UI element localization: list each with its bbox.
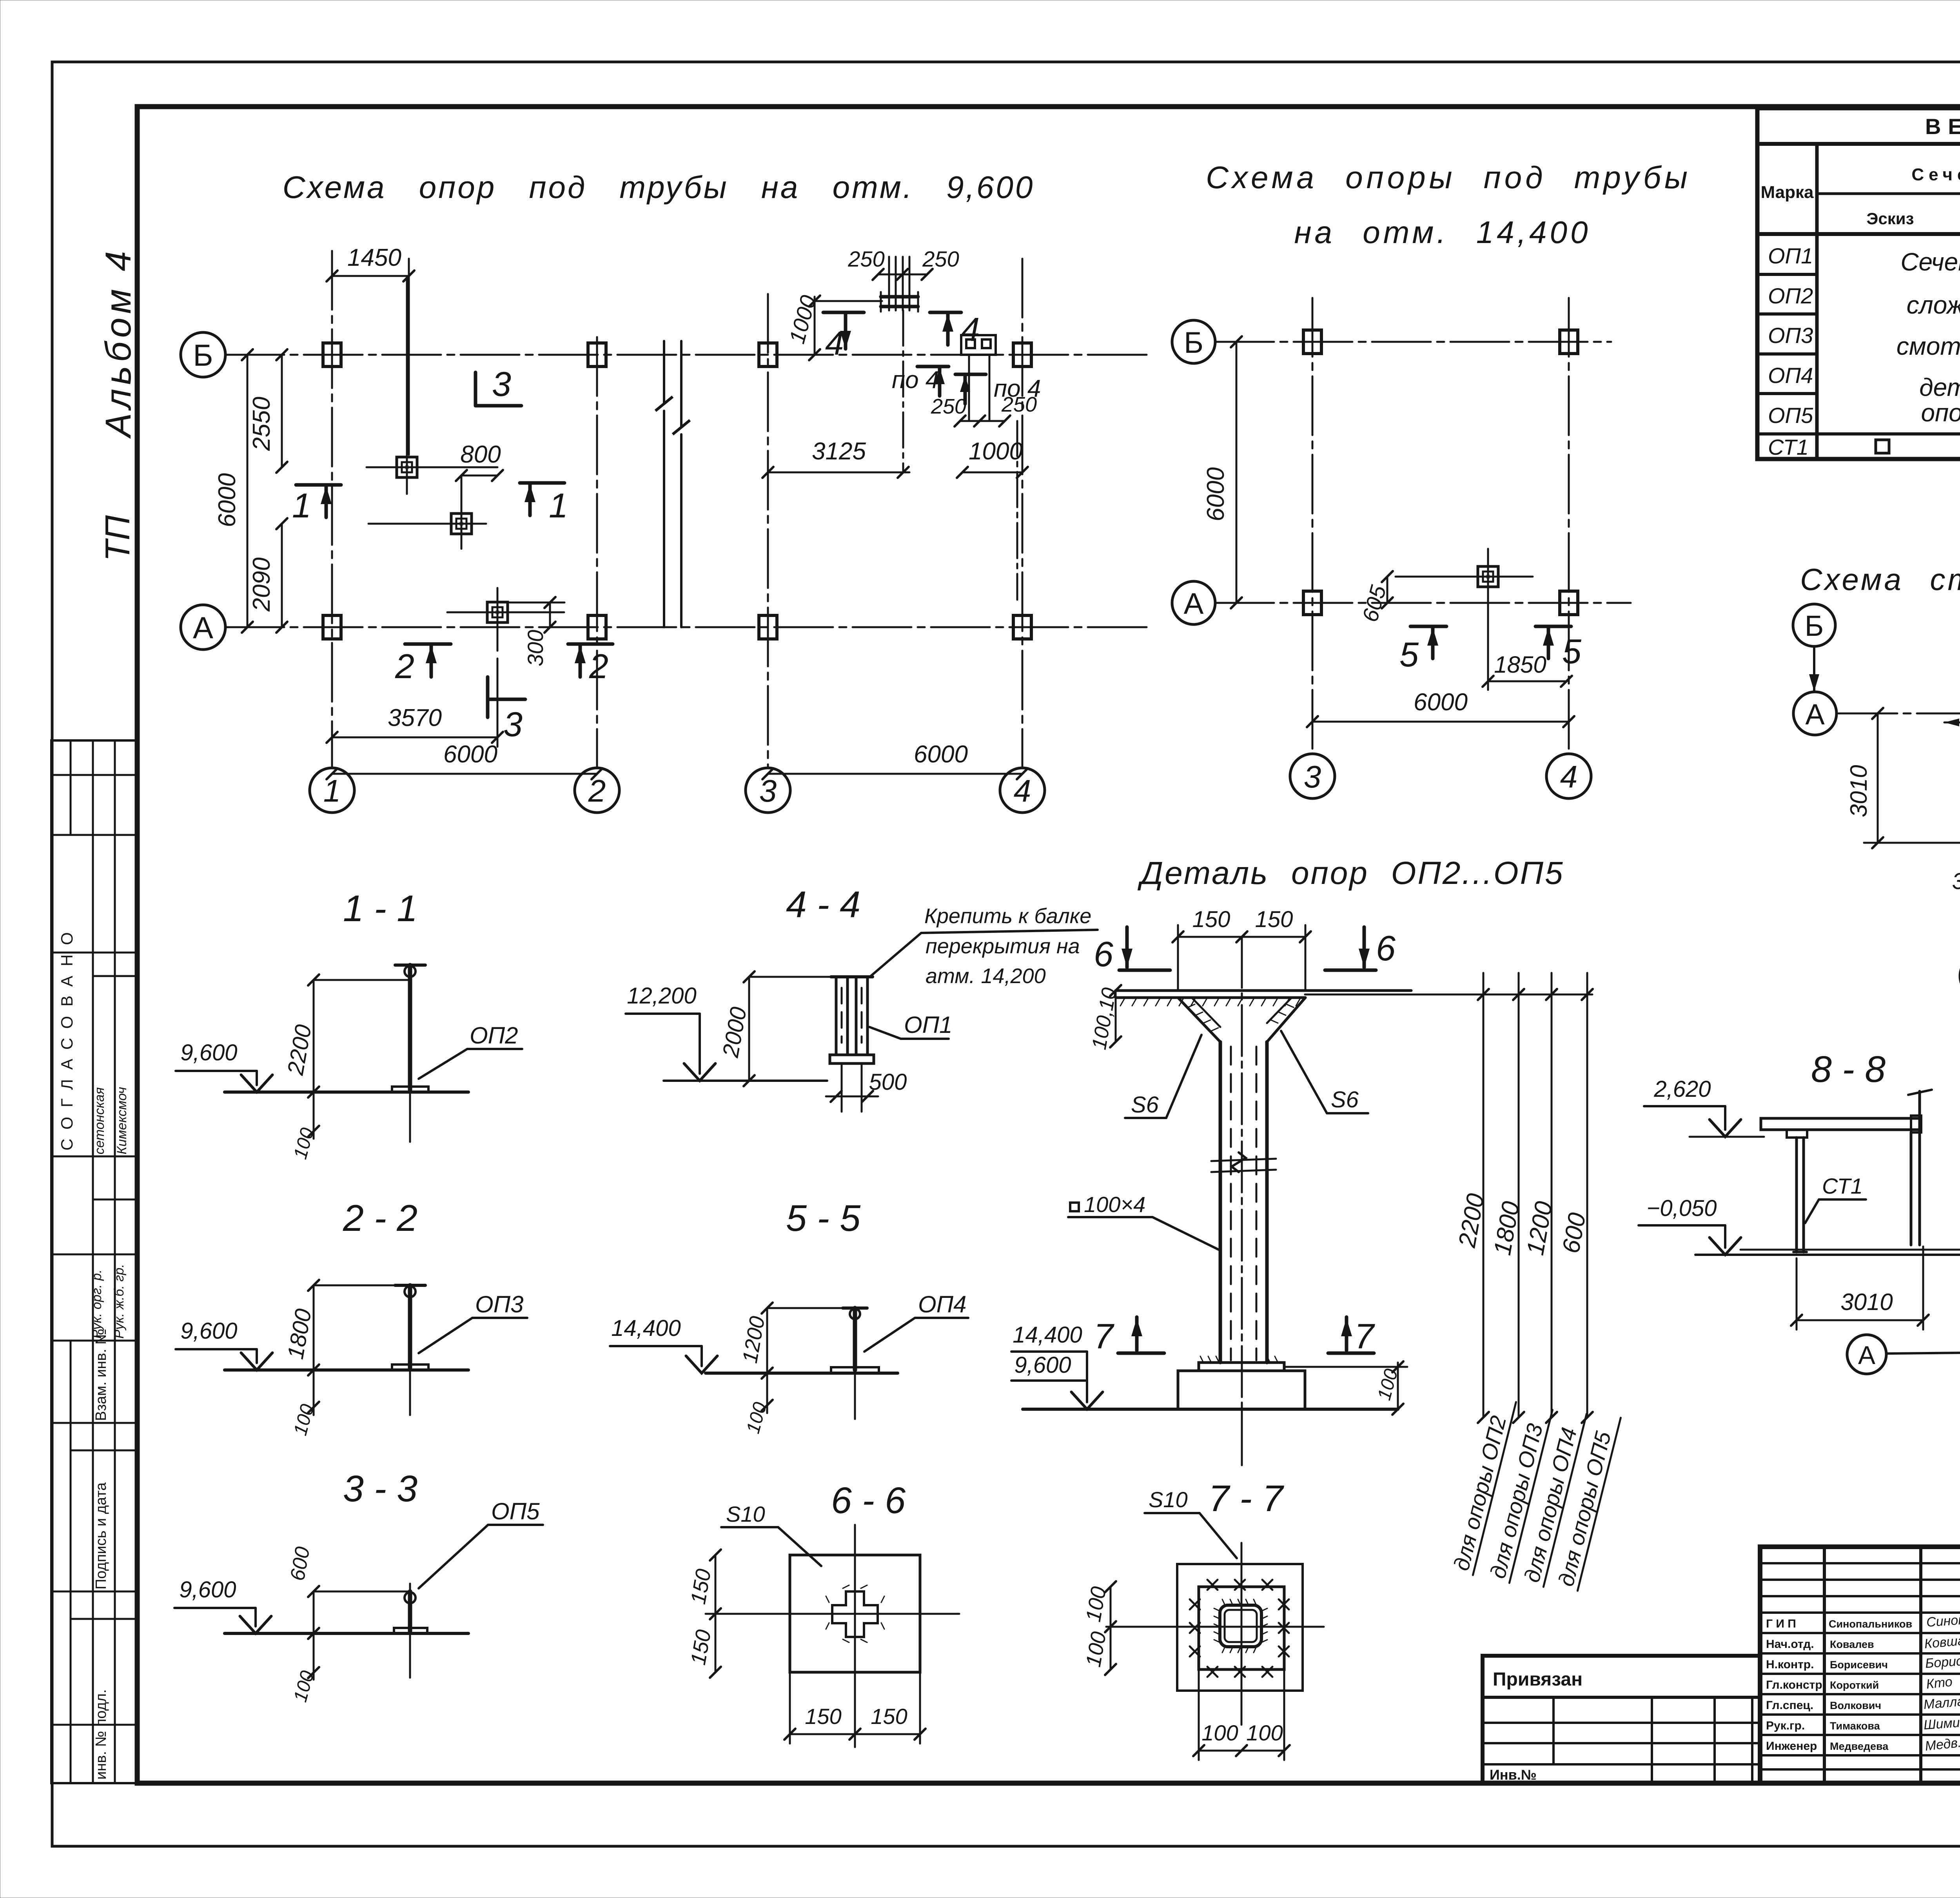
s88 level 2620 — [1644, 1076, 1764, 1137]
svg-text:СТ1: СТ1 — [1768, 435, 1809, 459]
plan2 support symbol — [1396, 576, 1533, 578]
section mark 1 right — [520, 483, 568, 525]
svg-text:1850: 1850 — [1494, 651, 1546, 678]
svg-text:9,600: 9,600 — [1014, 1352, 1071, 1378]
s22 ground line — [225, 1368, 468, 1372]
svg-text:Тимакова: Тимакова — [1830, 1720, 1880, 1732]
svg-text:А: А — [1858, 1341, 1875, 1370]
cd section mark 6 right — [1325, 927, 1396, 970]
plan2 dimension 1850 — [1483, 611, 1572, 690]
svg-text:ОП1: ОП1 — [1768, 243, 1813, 268]
grid circle 4 — [1000, 768, 1045, 813]
svg-text:Рук. ж.б. гр.: Рук. ж.б. гр. — [112, 1264, 127, 1339]
svg-text:Борисевич: Борисевич — [1830, 1659, 1888, 1671]
svg-text:Ковалев: Ковалев — [1830, 1639, 1874, 1650]
s55 ground line — [706, 1372, 898, 1375]
s77 S10 label — [1145, 1487, 1237, 1558]
svg-text:3: 3 — [503, 705, 523, 744]
svg-text:9,600: 9,600 — [179, 1577, 236, 1602]
tb signatures — [1923, 1612, 1960, 1754]
TITLE BLOCK — [1760, 1547, 1960, 1783]
svg-text:Г И П: Г И П — [1766, 1617, 1796, 1630]
plan2 dimension 605 — [1357, 571, 1393, 624]
dimension 6000 vertical — [214, 349, 253, 633]
svg-text:100: 100 — [1082, 1630, 1111, 1669]
privyazan header line — [1483, 1696, 1760, 1699]
cd column shaft — [1220, 937, 1267, 1466]
svg-text:2,620: 2,620 — [1653, 1076, 1711, 1102]
svg-text:ОП3: ОП3 — [1768, 323, 1813, 348]
plan2 grid line 3 — [1312, 298, 1314, 753]
section mark 4 left — [823, 312, 864, 362]
svg-text:А: А — [1184, 587, 1204, 621]
cd fan dim lines for OP2..OP5 — [1305, 973, 1593, 1423]
svg-text:100×4: 100×4 — [1084, 1192, 1145, 1217]
svg-text:5: 5 — [1562, 632, 1582, 671]
column square A4 — [1013, 615, 1031, 639]
svg-text:3: 3 — [492, 365, 511, 403]
s11 label OP2 — [419, 1022, 522, 1079]
cd fan labels for supports — [1448, 1396, 1516, 1575]
svg-text:250: 250 — [848, 247, 884, 271]
svg-text:Нач.отд.: Нач.отд. — [1766, 1638, 1814, 1651]
dimension 250 250 lower — [931, 393, 1037, 426]
svg-text:2200: 2200 — [283, 1023, 317, 1077]
svg-text:Б: Б — [1184, 326, 1203, 359]
plan2 grid circle 3 — [1290, 754, 1335, 798]
s55 level 14400 — [610, 1316, 717, 1373]
s33 top dim line — [314, 1591, 410, 1593]
svg-text:S10: S10 — [726, 1502, 765, 1526]
dimension 6000 bottom left bay — [327, 741, 603, 779]
svg-text:100: 100 — [742, 1400, 771, 1435]
dimension 3125 — [762, 438, 909, 478]
grid circle 3 — [746, 768, 790, 813]
s44 note krepit k balke — [870, 904, 1098, 988]
svg-text:СОГЛАСОВАНО: СОГЛАСОВАНО — [58, 923, 76, 1150]
svg-text:Борис: Борис — [1925, 1653, 1960, 1671]
svg-text:6000: 6000 — [914, 741, 968, 768]
cd levels 14400 9600 — [1011, 1322, 1103, 1409]
svg-text:сложное: сложное — [1907, 291, 1960, 319]
dimension 3570 — [327, 659, 503, 747]
pipe support symbol on axis B — [961, 335, 996, 355]
table title row line — [1757, 142, 1960, 146]
svg-text:1: 1 — [292, 486, 311, 525]
s77 tube section — [1220, 1605, 1261, 1647]
s77 weld x marks — [1190, 1580, 1289, 1677]
cd foundation block — [1178, 1371, 1305, 1409]
axis B line — [225, 354, 1152, 356]
svg-text:Медведева: Медведева — [1830, 1740, 1889, 1752]
svg-text:100: 100 — [1246, 1720, 1283, 1745]
section mark 3 upper — [475, 365, 521, 406]
ELEMENT LIST TABLE — [1757, 108, 1960, 459]
s66 base plate square — [790, 1555, 920, 1672]
svg-text:Короткий: Короткий — [1830, 1679, 1879, 1691]
svg-text:Ковшapp: Ковшapp — [1924, 1632, 1960, 1651]
svg-text:деталь: деталь — [1919, 373, 1960, 401]
svg-text:100: 100 — [290, 1125, 318, 1161]
svg-text:Сечение: Сечение — [1911, 165, 1960, 184]
column square B2 — [588, 343, 606, 367]
svg-text:Схема стоек для козырька: Схема стоек для козырька — [1800, 562, 1960, 597]
plan2 axis B line — [1215, 341, 1611, 343]
svg-text:150: 150 — [686, 1567, 716, 1606]
svg-text:9,600: 9,600 — [180, 1318, 237, 1344]
svg-text:А: А — [1805, 698, 1825, 731]
table outer box — [1757, 108, 1960, 459]
dimension 2550 — [248, 349, 287, 473]
section mark 1 left — [292, 485, 341, 525]
s66 left dim 150 150 — [686, 1550, 721, 1678]
svg-text:Эскиз: Эскиз — [1867, 209, 1914, 228]
kozyrek axis B circle — [1793, 604, 1835, 646]
svg-text:Гл.констр.: Гл.констр. — [1766, 1678, 1826, 1691]
grid line 2 — [596, 337, 598, 768]
s44 vertical dim 2000 — [718, 971, 755, 1086]
svg-text:Кто: Кто — [1926, 1674, 1953, 1692]
svg-text:перекрытия на: перекрытия на — [926, 934, 1080, 958]
cd 7-7 continuation axis — [1241, 1409, 1243, 1462]
svg-text:2: 2 — [395, 647, 414, 686]
s33 vertical dim 600 — [286, 1545, 319, 1639]
svg-text:5 - 5: 5 - 5 — [786, 1198, 861, 1239]
s77 left dim 100 100 — [1082, 1581, 1116, 1675]
plan2 axis B circle — [1172, 320, 1215, 363]
s44 hanging column OP1 — [830, 977, 874, 1112]
s88 label CT1 — [1805, 1174, 1866, 1223]
svg-text:3 - 3: 3 - 3 — [343, 1468, 417, 1510]
svg-text:ОП5: ОП5 — [1768, 403, 1813, 428]
svg-text:Привязан: Привязан — [1493, 1669, 1583, 1690]
s44 level 12200 — [626, 983, 715, 1081]
s44 base line — [664, 1080, 827, 1082]
svg-text:1: 1 — [549, 486, 568, 525]
svg-text:Маллав: Маллав — [1923, 1693, 1960, 1712]
s88 ground line — [1695, 1250, 1960, 1255]
strip column line a — [92, 740, 94, 1783]
svg-text:6000: 6000 — [214, 473, 241, 527]
cd dim 100.10 left — [1088, 985, 1121, 1051]
svg-text:14,400: 14,400 — [1013, 1322, 1082, 1348]
plan2 grid circle 4 — [1546, 754, 1591, 798]
svg-text:S6: S6 — [1131, 1092, 1159, 1118]
dimension 2090 — [248, 518, 287, 633]
svg-text:Инв.№: Инв.№ — [1490, 1767, 1537, 1783]
svg-text:Волкович: Волкович — [1830, 1700, 1881, 1711]
svg-text:605: 605 — [1357, 582, 1391, 624]
svg-text:атм. 14,200: атм. 14,200 — [926, 964, 1046, 988]
tb left columns — [1823, 1547, 1826, 1783]
svg-text:Рук.гр.: Рук.гр. — [1766, 1719, 1805, 1732]
s22 vertical dim 1800 — [283, 1280, 319, 1375]
svg-text:100: 100 — [290, 1402, 318, 1437]
title block outer — [1760, 1547, 1960, 1783]
table header bottom line — [1757, 232, 1960, 236]
svg-text:Сечение: Сечение — [1900, 248, 1960, 276]
support symbol a — [367, 466, 497, 468]
plan2 dimension 6000 bottom — [1307, 689, 1574, 727]
svg-text:Подпись и дата: Подпись и дата — [93, 1482, 109, 1590]
s77 base plate square — [1199, 1587, 1284, 1669]
svg-text:Гл.спец.: Гл.спец. — [1766, 1699, 1813, 1712]
grid circle 2 — [575, 768, 619, 813]
s33 level 9600 — [174, 1577, 271, 1633]
svg-text:600: 600 — [1557, 1211, 1591, 1256]
svg-text:ОП2: ОП2 — [1768, 283, 1813, 308]
svg-text:9,600: 9,600 — [180, 1040, 237, 1065]
svg-text:1000: 1000 — [969, 438, 1023, 465]
s22 dim 100 — [290, 1370, 319, 1438]
svg-text:3125: 3125 — [812, 438, 866, 465]
svg-text:6000: 6000 — [1414, 689, 1468, 716]
s11 vertical dim 2200 — [283, 974, 319, 1098]
svg-text:ОП4: ОП4 — [918, 1291, 967, 1317]
svg-text:6000: 6000 — [1202, 467, 1229, 521]
grid line 3 — [767, 294, 769, 768]
s33 label OP5 — [419, 1498, 543, 1588]
cd weld label S6 left — [1125, 1035, 1201, 1118]
svg-text:14,400: 14,400 — [611, 1316, 681, 1341]
s22 label OP3 — [419, 1291, 527, 1353]
svg-text:Медв.: Медв. — [1924, 1735, 1960, 1753]
plan2 axis A circle — [1172, 581, 1215, 624]
dimension 250 250 upper — [848, 247, 959, 280]
s88 level -0.050 — [1639, 1196, 1741, 1255]
svg-text:по 4: по 4 — [892, 367, 939, 394]
s33 column OP5 — [394, 1584, 427, 1678]
s44 dim 500 — [826, 1069, 907, 1102]
svg-text:1450: 1450 — [347, 244, 401, 271]
svg-text:2 - 2: 2 - 2 — [343, 1198, 417, 1239]
s88 axis circle A — [1847, 1335, 1886, 1374]
s88 A to B arrow — [1886, 1347, 1960, 1358]
dimension 1450 — [327, 244, 414, 455]
cd gusset right — [1267, 998, 1305, 1042]
grid line 1 — [331, 251, 333, 768]
svg-text:6000: 6000 — [443, 741, 497, 768]
svg-text:500: 500 — [869, 1069, 907, 1095]
svg-text:150: 150 — [686, 1628, 716, 1667]
s22 column OP3 — [392, 1285, 428, 1415]
plan2 dimension 6000 vertical — [1202, 336, 1242, 608]
cd label 100x4 — [1068, 1192, 1220, 1250]
dimension 1000 lower — [957, 438, 1028, 478]
s77 axis cross — [1106, 1543, 1324, 1725]
plan2 column square A4 — [1560, 591, 1578, 615]
svg-text:Схема опоры под трубы: Схема опоры под трубы — [1206, 160, 1691, 195]
svg-text:2090: 2090 — [248, 557, 275, 612]
kozyrek lower support line — [1864, 842, 1960, 844]
kozyrek dimension 3010 — [1846, 708, 1883, 848]
s88 post CT1 — [1793, 1138, 1807, 1252]
s77 foundation square — [1177, 1564, 1303, 1691]
svg-text:ТП: ТП — [98, 515, 137, 561]
svg-text:150: 150 — [871, 1704, 907, 1729]
svg-text:7 - 7: 7 - 7 — [1209, 1478, 1284, 1519]
s11 dim 100 — [290, 1092, 319, 1161]
s88 dim 3010 — [1791, 1247, 1929, 1330]
svg-text:Б: Б — [1805, 610, 1824, 642]
svg-text:S6: S6 — [1331, 1087, 1359, 1112]
cd section mark 7 left — [1094, 1317, 1164, 1356]
svg-text:Рук. орг. р.: Рук. орг. р. — [89, 1270, 104, 1339]
s33 ground line — [225, 1632, 468, 1635]
column square A1 — [323, 615, 341, 639]
s66 S10 label — [721, 1502, 821, 1566]
svg-text:Инженер: Инженер — [1766, 1740, 1817, 1753]
svg-text:7: 7 — [1094, 1317, 1114, 1356]
s55 vertical dim 1200 — [738, 1303, 773, 1379]
break symbol between 2 and 3 — [655, 341, 690, 627]
s88 right wall line — [1908, 1090, 1932, 1245]
svg-text:Схема опор под трубы на отм. 9: Схема опор под трубы на отм. 9,600 — [283, 170, 1035, 205]
svg-text:150: 150 — [805, 1704, 841, 1729]
cd gusset left — [1178, 998, 1220, 1042]
svg-text:Шимин: Шимин — [1923, 1715, 1960, 1733]
s11 top dim line — [314, 979, 410, 981]
svg-text:4: 4 — [1560, 759, 1578, 794]
section mark 3 lower — [488, 677, 525, 744]
axis A line — [225, 626, 1152, 628]
section mark 4 right — [930, 311, 980, 348]
svg-text:−0,050: −0,050 — [1646, 1196, 1717, 1221]
table row lines marka column and data — [1757, 273, 1817, 276]
svg-text:250: 250 — [931, 395, 966, 418]
s66 axis cross — [706, 1525, 959, 1747]
svg-text:100: 100 — [290, 1668, 318, 1704]
tb names — [1829, 1618, 1912, 1752]
pipe clamp symbol upper — [881, 257, 918, 312]
svg-text:4: 4 — [961, 311, 980, 348]
s55 column OP4 — [831, 1308, 879, 1419]
pipe axis line down to dim — [902, 310, 904, 472]
section mark po4 left — [892, 367, 949, 396]
cd dimension 150 150 — [1172, 907, 1311, 991]
svg-text:6: 6 — [1094, 935, 1114, 974]
svg-text:Альбом 4: Альбом 4 — [98, 247, 138, 439]
s55 top dim line — [767, 1307, 855, 1309]
tb roles — [1766, 1617, 1826, 1753]
svg-text:ОП2: ОП2 — [470, 1022, 518, 1049]
svg-text:4 - 4: 4 - 4 — [786, 884, 860, 925]
kozyrek axis A line — [1838, 713, 1960, 715]
plan2 column square B4 — [1560, 330, 1578, 354]
s11 level 9600 — [176, 1040, 272, 1092]
svg-text:2550: 2550 — [248, 397, 275, 451]
s22 level 9600 — [176, 1318, 272, 1370]
column square B3 — [759, 343, 777, 367]
cd base plate — [1199, 1356, 1284, 1371]
svg-text:100: 100 — [1201, 1720, 1238, 1745]
svg-text:Деталь опор ОП2...ОП5: Деталь опор ОП2...ОП5 — [1137, 855, 1564, 891]
svg-text:опоры: опоры — [1921, 399, 1960, 427]
svg-text:150: 150 — [1192, 907, 1230, 932]
privyazan columns — [1552, 1697, 1555, 1764]
s33 dim 100 — [290, 1633, 319, 1704]
s22 top dim line — [314, 1285, 410, 1287]
plan2 column square B3 — [1303, 330, 1321, 354]
kozyrek axis A circle — [1793, 692, 1837, 735]
kozyrek B to A arrow — [1813, 646, 1815, 691]
svg-text:6 - 6: 6 - 6 — [831, 1480, 906, 1521]
svg-text:2000: 2000 — [718, 1005, 752, 1060]
kozyrek dimension row 350 3660 1990 — [1952, 862, 1960, 903]
s66 bottom dim 150 150 — [784, 1672, 926, 1744]
svg-text:100: 100 — [1082, 1585, 1111, 1624]
strip row lines — [51, 774, 137, 776]
s55 dim 100 — [742, 1373, 773, 1436]
svg-text:ВЕДОМОСТЬ ЭЛЕМЕНТОВ: ВЕДОМОСТЬ ЭЛЕМЕНТОВ — [1925, 114, 1960, 139]
s44 top dim line — [749, 976, 837, 978]
svg-text:4: 4 — [825, 325, 844, 362]
table mid header line sechenie — [1817, 192, 1960, 195]
svg-text:А: А — [193, 610, 213, 645]
cd weld label S6 right — [1281, 1031, 1368, 1113]
svg-text:250: 250 — [1001, 393, 1037, 416]
svg-text:7: 7 — [1354, 1317, 1375, 1356]
column square B1 — [323, 343, 341, 367]
svg-text:1 - 1: 1 - 1 — [343, 888, 417, 929]
svg-text:СТ1: СТ1 — [1822, 1174, 1863, 1198]
svg-text:Крепить к балке: Крепить к балке — [924, 904, 1091, 928]
support symbol c — [447, 611, 564, 613]
svg-text:250: 250 — [922, 247, 959, 271]
plan2 section mark 5 left — [1399, 626, 1446, 674]
support symbol b — [368, 523, 486, 525]
svg-text:6: 6 — [1376, 929, 1396, 968]
svg-text:800: 800 — [460, 441, 501, 468]
section mark 2 left — [395, 644, 451, 686]
s88 canopy beam — [1761, 1116, 1921, 1138]
svg-text:Кимексмоч: Кимексмоч — [114, 1087, 129, 1154]
plan2 section mark 5 right — [1535, 626, 1582, 671]
grid line 4 — [1022, 259, 1024, 768]
svg-text:300: 300 — [523, 630, 548, 666]
cd ground line — [1023, 1408, 1398, 1411]
dimension 1000 top — [784, 292, 882, 360]
axis A circle — [181, 605, 225, 650]
dimension 800 — [456, 441, 503, 481]
strip column line b — [114, 740, 116, 1783]
svg-text:3010: 3010 — [1840, 1289, 1893, 1315]
dimension 6000 bottom right bay — [762, 741, 1028, 779]
cd section mark 7 right — [1328, 1317, 1375, 1356]
pipe vertical line pair below support — [968, 355, 970, 421]
svg-text:сетонская: сетонская — [92, 1087, 107, 1154]
cd break symbol — [1211, 1152, 1276, 1172]
svg-text:Взам. инв. №: Взам. инв. № — [93, 1329, 109, 1421]
tb left row lines — [1760, 1563, 1960, 1769]
section mark po4 right — [955, 374, 1041, 404]
svg-text:ОП4: ОП4 — [1768, 363, 1813, 388]
s55 label OP4 — [864, 1291, 968, 1352]
plan2 axis A line — [1215, 602, 1631, 604]
svg-text:на отм. 14,400: на отм. 14,400 — [1294, 215, 1591, 250]
axis B circle — [181, 332, 225, 377]
svg-text:инв. № подл.: инв. № подл. — [93, 1689, 109, 1780]
plan2 column square A3 — [1303, 591, 1321, 615]
cd top plate — [1116, 991, 1411, 1006]
svg-text:12,200: 12,200 — [627, 983, 696, 1009]
svg-text:3: 3 — [1304, 759, 1321, 794]
svg-text:2: 2 — [589, 647, 608, 686]
svg-text:5: 5 — [1399, 635, 1419, 674]
PRIVYAZAN BLOCK — [1483, 1656, 1760, 1783]
svg-text:S10: S10 — [1149, 1487, 1188, 1512]
cd dim 100 right — [1284, 1361, 1407, 1415]
